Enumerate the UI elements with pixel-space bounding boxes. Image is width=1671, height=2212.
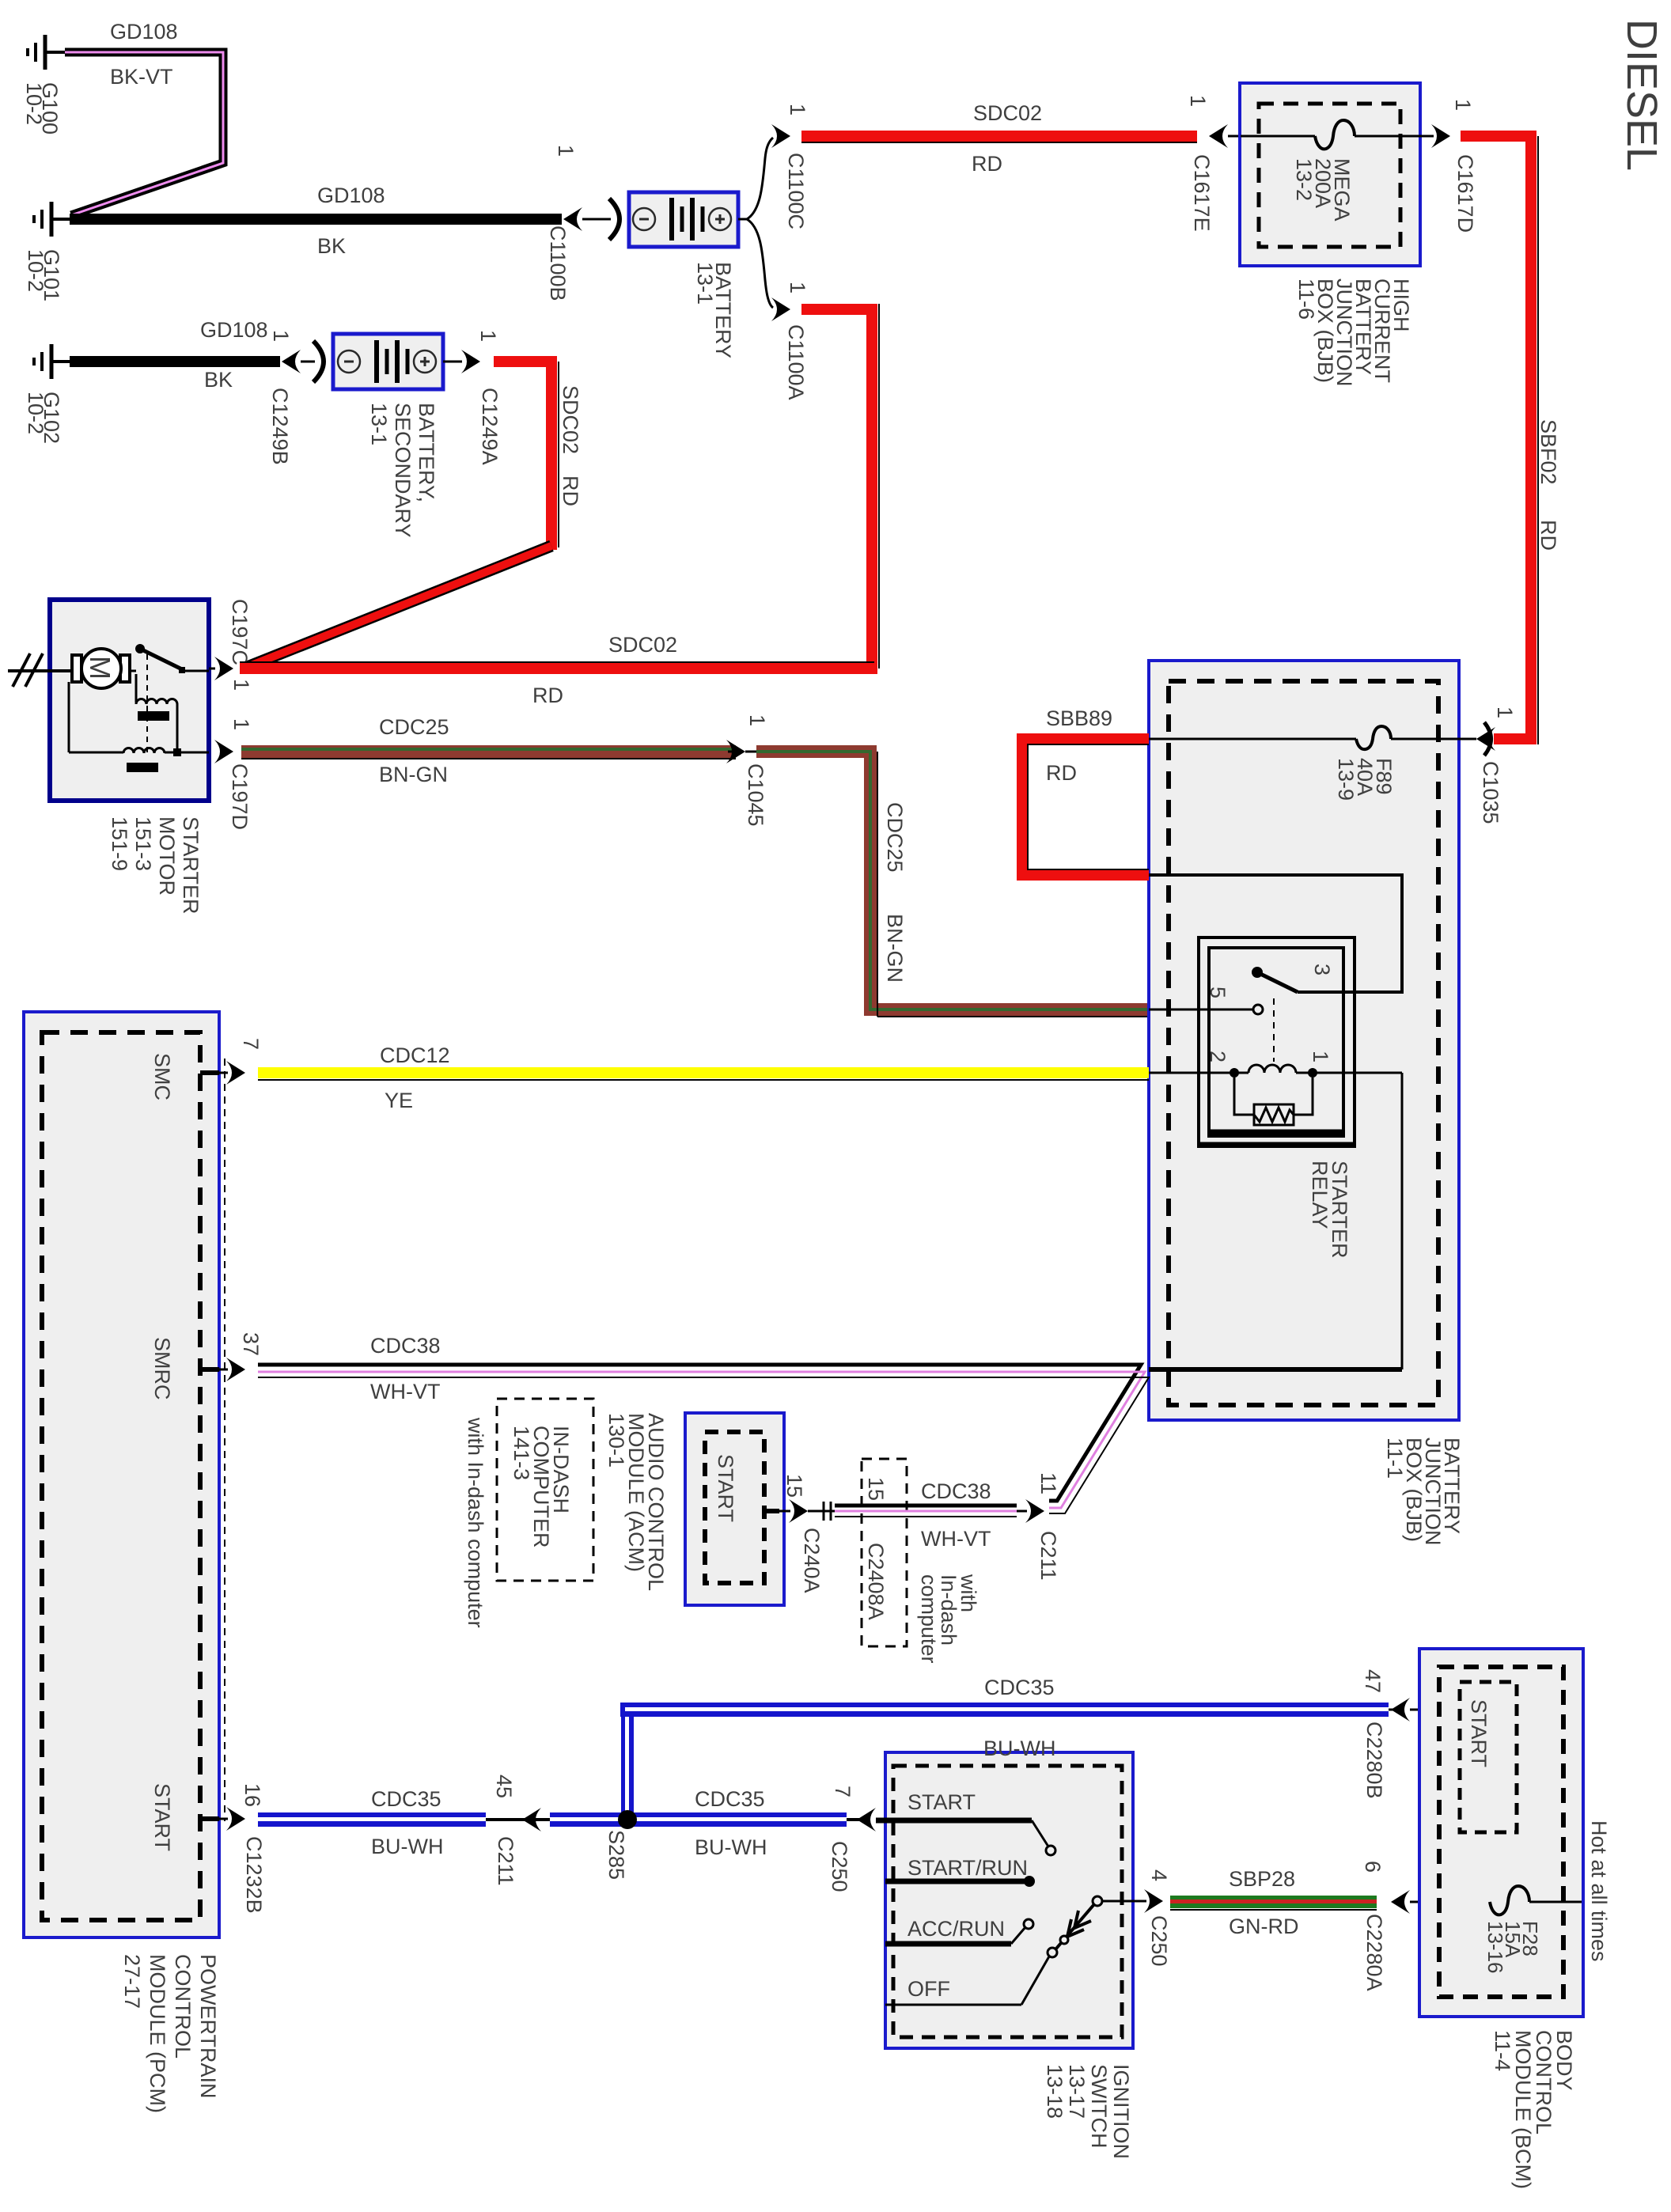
- wire CDC35 BU-WH (C211 to S285): [550, 1812, 862, 1827]
- svg-text:START: START: [907, 1790, 976, 1814]
- label SBB89 RD: [1046, 706, 1112, 785]
- label BODY CONTROL MODULE (BCM) 11-4: [1491, 2030, 1576, 2189]
- connector C2280B: [1391, 1698, 1460, 1721]
- svg-text:5: 5: [1206, 987, 1230, 998]
- svg-text:C211: C211: [494, 1836, 517, 1886]
- svg-text:C1249A: C1249A: [478, 388, 502, 465]
- svg-text:RD: RD: [1536, 520, 1560, 551]
- wire SBB89 RD loop: [1022, 739, 1149, 875]
- svg-text:C1100C: C1100C: [784, 153, 808, 229]
- svg-text:7: 7: [831, 1786, 854, 1797]
- svg-text:1: 1: [1451, 99, 1475, 111]
- svg-text:6: 6: [1361, 1861, 1385, 1873]
- fuse F28 15A: [1490, 1886, 1582, 1915]
- pin 1 C1045: [745, 714, 769, 726]
- label GD108 (BK lower): [200, 318, 268, 392]
- pin SMRC: [150, 1337, 245, 1400]
- label SDC02 RD (top): [972, 101, 1042, 176]
- svg-text:RELAY: RELAY: [1308, 1161, 1332, 1229]
- label BATTERY, SECONDARY 13-1: [367, 403, 438, 538]
- wire CDC12 YE: [258, 1067, 1149, 1080]
- starter motor box: [50, 600, 209, 801]
- relay pin label 2: [1206, 1051, 1230, 1062]
- svg-text:CONTROL: CONTROL: [171, 1954, 195, 2059]
- connector C2280A: [1391, 1890, 1490, 1914]
- ground G100: [28, 35, 65, 70]
- label CDC25 BN-GN: [379, 715, 449, 786]
- svg-text:SMRC: SMRC: [150, 1337, 174, 1400]
- label AUDIO CONTROL MODULE (ACM) 130-1: [604, 1413, 668, 1591]
- connector C1249A: [443, 350, 480, 373]
- wire relay pin3 feed: [1149, 875, 1402, 992]
- wire SDC02 RD stub C1100A: [801, 304, 879, 674]
- label C1035: [1479, 761, 1502, 824]
- svg-text:C197C: C197C: [228, 599, 252, 665]
- svg-text:1: 1: [229, 718, 253, 730]
- svg-text:SBB89: SBB89: [1046, 706, 1112, 730]
- motor M (starter): [72, 649, 130, 688]
- pin 15 C240A: [782, 1474, 806, 1498]
- battery B1 (BATTERY 13-1): [629, 192, 738, 247]
- svg-text:11-4: 11-4: [1491, 2030, 1514, 2071]
- svg-text:27-17: 27-17: [120, 1954, 144, 2009]
- label C250 (right): [1147, 1915, 1171, 1967]
- label S285: [604, 1830, 628, 1880]
- svg-text:S285: S285: [604, 1830, 628, 1880]
- audio control module ACM box: [685, 1413, 784, 1605]
- pin START (PCM): [150, 1783, 245, 1851]
- svg-text:141-3: 141-3: [510, 1426, 533, 1480]
- svg-text:151-9: 151-9: [108, 816, 131, 871]
- pin 1 C1100B: [554, 145, 578, 157]
- svg-text:YE: YE: [385, 1089, 413, 1112]
- svg-text:BN-GN: BN-GN: [379, 763, 448, 786]
- label Hot at all times: [1587, 1820, 1611, 1962]
- label BATTERY 13-1: [693, 262, 735, 358]
- label with In-dash computer (ACM): [464, 1417, 487, 1628]
- svg-text:2: 2: [1206, 1051, 1230, 1062]
- svg-text:10-2: 10-2: [24, 249, 47, 292]
- relay coil: [1149, 1065, 1402, 1078]
- svg-text:13-16: 13-16: [1483, 1921, 1507, 1974]
- label START (BCM): [1467, 1699, 1491, 1767]
- wire GD108 BK (G102 to battery 2): [70, 356, 280, 367]
- pin 1 C1249A: [476, 330, 500, 342]
- svg-text:BATTERY,: BATTERY,: [415, 403, 438, 502]
- pin 7 C250: [831, 1786, 854, 1797]
- engine ground (starter): [8, 653, 72, 687]
- svg-text:11: 11: [1036, 1472, 1060, 1494]
- connector C197C: [209, 657, 233, 680]
- svg-text:130-1: 130-1: [604, 1413, 628, 1468]
- label CDC25 (vertical): [883, 802, 907, 873]
- svg-text:RD: RD: [972, 152, 1002, 176]
- pin 15 C2408A: [864, 1477, 888, 1501]
- pin 1 C1100A: [786, 282, 809, 294]
- label SDC02 RD (battery2 vertical): [559, 385, 582, 506]
- svg-text:ACC/RUN: ACC/RUN: [907, 1917, 1005, 1941]
- svg-text:13-2: 13-2: [1292, 158, 1316, 201]
- svg-text:C197D: C197D: [228, 763, 252, 830]
- svg-text:C240A: C240A: [800, 1528, 824, 1593]
- battery junction box BJB: [1149, 661, 1459, 1420]
- relay pin label 1: [1309, 1051, 1332, 1062]
- ignition switch blade: [1056, 1896, 1146, 1949]
- svg-text:SBF02: SBF02: [1536, 419, 1560, 485]
- fuse F89 40A: [1149, 726, 1476, 749]
- ignition contact ACC/RUN: [885, 1917, 1033, 1944]
- svg-text:C2280B: C2280B: [1362, 1721, 1386, 1799]
- powertrain control module PCM box: [24, 1012, 225, 1937]
- svg-text:1: 1: [229, 679, 253, 691]
- pin SMC: [150, 1053, 245, 1100]
- label F28 15A 13-16: [1483, 1921, 1542, 1974]
- svg-text:3: 3: [1310, 964, 1334, 975]
- body control module BCM box: [1419, 1649, 1583, 2017]
- svg-text:1: 1: [476, 330, 500, 342]
- connector C211 (CDC35): [522, 1808, 541, 1831]
- svg-text:1: 1: [1493, 706, 1517, 718]
- pin 16 label: [241, 1783, 264, 1807]
- svg-text:BU-WH: BU-WH: [371, 1835, 443, 1858]
- svg-text:13-9: 13-9: [1334, 758, 1358, 801]
- label C250 (left): [828, 1841, 851, 1892]
- label C2280A: [1362, 1914, 1386, 1991]
- svg-text:CDC35: CDC35: [371, 1787, 441, 1811]
- svg-text:CDC38: CDC38: [921, 1479, 991, 1503]
- pin 1 C1035: [1493, 706, 1517, 718]
- svg-text:13-17: 13-17: [1065, 2064, 1089, 2119]
- svg-text:10-2: 10-2: [22, 82, 46, 125]
- starter solenoid pull-in coil: [136, 674, 181, 756]
- wire CDC38 WH-VT (ACM to C211): [835, 1506, 1027, 1517]
- pin 45 label: [492, 1775, 516, 1798]
- svg-text:RD: RD: [559, 475, 582, 506]
- wire GD108 BK (G101 to battery): [70, 214, 562, 225]
- svg-text:15: 15: [864, 1477, 888, 1501]
- svg-text:11-1: 11-1: [1383, 1437, 1407, 1479]
- svg-text:SBP28: SBP28: [1229, 1867, 1295, 1891]
- label C2408A: [864, 1543, 888, 1620]
- label SBF02 RD (vertical): [1536, 419, 1560, 551]
- svg-text:1: 1: [554, 145, 578, 157]
- connector C1045: [726, 740, 758, 763]
- svg-text:GD108: GD108: [317, 184, 385, 207]
- relay pin label 3: [1310, 964, 1334, 975]
- svg-text:BK-VT: BK-VT: [110, 65, 173, 89]
- svg-text:37: 37: [239, 1332, 263, 1356]
- svg-text:C1100B: C1100B: [546, 225, 570, 301]
- label HIGH CURRENT BATTERY JUNCTION BOX (BJB) 11-6: [1294, 278, 1413, 387]
- svg-text:1: 1: [269, 330, 293, 342]
- svg-text:SDC02: SDC02: [608, 633, 677, 657]
- label C1045: [744, 763, 767, 827]
- starter solenoid hold-in coil: [69, 682, 209, 772]
- label CDC38 WH-VT (ACM run): [921, 1479, 991, 1551]
- svg-text:C1035: C1035: [1479, 761, 1502, 824]
- ground G101: [34, 202, 71, 237]
- battery B2 (BATTERY SECONDARY 13-1): [333, 334, 443, 389]
- label GD108 (BK-VT): [110, 20, 178, 89]
- svg-text:START/RUN: START/RUN: [907, 1856, 1028, 1880]
- wire CDC25 BN-GN (starter to C1045): [241, 745, 736, 759]
- label IGNITION SWITCH 13-17 13-18: [1043, 2064, 1133, 2159]
- svg-text:BK: BK: [317, 234, 346, 258]
- svg-text:RD: RD: [1046, 761, 1077, 785]
- label C1232B: [242, 1836, 266, 1914]
- pin 47 label: [1361, 1669, 1385, 1693]
- svg-text:1: 1: [1309, 1051, 1332, 1062]
- svg-text:WH-VT: WH-VT: [370, 1380, 440, 1403]
- connector C1617E: [1209, 124, 1241, 148]
- label G100 10-2: [22, 82, 62, 134]
- svg-text:C1045: C1045: [744, 763, 767, 827]
- svg-text:13-1: 13-1: [693, 262, 717, 305]
- svg-text:SMC: SMC: [150, 1053, 174, 1100]
- svg-text:computer: computer: [917, 1574, 941, 1664]
- pin 1 C197C: [229, 679, 253, 691]
- label CDC35 BU-WH (mid): [695, 1787, 767, 1859]
- wire SDC02 RD (long horizontal): [240, 662, 874, 674]
- connector C211 (CDC38): [1025, 1499, 1044, 1523]
- svg-text:C1232B: C1232B: [242, 1836, 266, 1914]
- svg-text:47: 47: [1361, 1669, 1385, 1693]
- label STARTER RELAY: [1308, 1161, 1351, 1259]
- svg-text:CDC38: CDC38: [370, 1334, 441, 1358]
- svg-text:13-1: 13-1: [367, 403, 391, 445]
- relay switch blade pins 3/5: [1149, 967, 1298, 1062]
- connector C197D: [214, 740, 233, 763]
- svg-text:BU-WH: BU-WH: [983, 1737, 1055, 1760]
- relay pin label 5: [1206, 987, 1230, 998]
- svg-text:MOTOR: MOTOR: [155, 816, 179, 896]
- label C1249A: [478, 388, 502, 465]
- svg-text:C211: C211: [1036, 1531, 1060, 1581]
- wire GD108 BK-VT: [65, 52, 223, 215]
- svg-text:SWITCH: SWITCH: [1087, 2064, 1111, 2148]
- label SDC02 RD (long run): [532, 633, 677, 707]
- wire CDC35 BU-WH (PCM to C211): [258, 1812, 550, 1827]
- svg-text:CDC25: CDC25: [379, 715, 449, 739]
- svg-text:C1617E: C1617E: [1190, 154, 1214, 232]
- svg-text:1: 1: [786, 282, 809, 294]
- svg-text:45: 45: [492, 1775, 516, 1798]
- svg-text:RD: RD: [532, 684, 563, 707]
- starter relay box: [1199, 937, 1355, 1146]
- svg-text:7: 7: [239, 1038, 263, 1050]
- pin 4 C250: [1147, 1869, 1171, 1881]
- pin 1 C1100C: [786, 104, 809, 116]
- svg-text:C2280A: C2280A: [1362, 1914, 1386, 1991]
- label C197C: [228, 599, 252, 665]
- label IN-DASH COMPUTER 141-3: [497, 1399, 593, 1581]
- label POWERTRAIN CONTROL MODULE (PCM) 27-17: [120, 1954, 220, 2113]
- label with In-dash computer (C2408A): [917, 1574, 980, 1664]
- connector C250 (CDC35 into ignition): [857, 1808, 876, 1831]
- pin 37 label: [239, 1332, 263, 1356]
- label C1617D: [1453, 154, 1477, 233]
- label CDC35 BU-WH (left): [371, 1787, 443, 1858]
- label C2280B: [1362, 1721, 1386, 1799]
- svg-text:SDC02: SDC02: [559, 385, 582, 454]
- svg-text:1: 1: [1186, 95, 1210, 107]
- wire CDC38 WH-VT (PCM to C211 junction): [258, 1365, 1149, 1513]
- label C1249B: [268, 388, 292, 465]
- svg-text:START: START: [150, 1783, 174, 1851]
- svg-text:151-3: 151-3: [131, 816, 155, 871]
- label C240A: [800, 1528, 824, 1593]
- connector C240A: [764, 1499, 835, 1523]
- svg-text:DIESEL: DIESEL: [1618, 19, 1665, 171]
- label GD108 (BK mid): [317, 184, 385, 258]
- svg-text:10-2: 10-2: [24, 392, 47, 434]
- svg-text:GN-RD: GN-RD: [1229, 1915, 1299, 1938]
- label C1100A: [784, 324, 808, 400]
- svg-text:C250: C250: [828, 1841, 851, 1892]
- connector C1100C: [771, 124, 790, 148]
- label C211 (CDC35): [494, 1836, 517, 1886]
- label START (ACM): [714, 1454, 737, 1522]
- svg-text:Hot at all times: Hot at all times: [1587, 1820, 1611, 1962]
- svg-text:OFF: OFF: [907, 1977, 950, 2001]
- svg-text:MODULE (PCM): MODULE (PCM): [146, 1954, 169, 2113]
- fuse box MEGA 200A (High Current BJB): [1240, 83, 1434, 266]
- label G102 10-2: [24, 392, 63, 444]
- starter solenoid switch: [130, 644, 209, 753]
- label CDC35 BU-WH (top run): [983, 1676, 1055, 1760]
- svg-text:11-6: 11-6: [1294, 278, 1318, 320]
- label MEGA 200A 13-2: [1292, 158, 1354, 222]
- wire SBF02 RD (vertical): [1461, 131, 1538, 744]
- pin 1 C1249B: [269, 330, 293, 342]
- svg-text:13-18: 13-18: [1043, 2064, 1067, 2119]
- label C1617E: [1190, 154, 1214, 232]
- pin 1 C197D: [229, 718, 253, 730]
- pin 7 label: [239, 1038, 263, 1050]
- wire CDC25 BN-GN (C1045 to BJB): [756, 752, 1149, 1017]
- svg-text:BU-WH: BU-WH: [695, 1835, 767, 1859]
- wire SDC02 RD (battery2 down to starter): [245, 356, 559, 668]
- splice S285: [618, 1810, 637, 1829]
- label C211 (CDC38): [1036, 1531, 1060, 1581]
- connector C1100B: [563, 199, 620, 240]
- label CDC38 WH-VT (upper): [370, 1334, 441, 1403]
- svg-text:with In-dash computer: with In-dash computer: [464, 1417, 487, 1628]
- connector C1617D: [1431, 124, 1450, 148]
- title DIESEL: [1618, 19, 1665, 171]
- svg-text:C250: C250: [1147, 1915, 1171, 1967]
- svg-text:GD108: GD108: [200, 318, 268, 342]
- svg-text:START: START: [1467, 1699, 1491, 1767]
- svg-text:M: M: [84, 656, 116, 680]
- svg-text:1: 1: [745, 714, 769, 726]
- svg-text:C2408A: C2408A: [864, 1543, 888, 1620]
- wire RD stub to C1035: [1494, 733, 1531, 744]
- svg-text:C1100A: C1100A: [784, 324, 808, 400]
- svg-text:SECONDARY: SECONDARY: [391, 403, 415, 538]
- svg-text:IGNITION: IGNITION: [1109, 2064, 1133, 2159]
- wire SBP28 GN-RD: [1170, 1896, 1377, 1910]
- svg-text:CDC35: CDC35: [695, 1787, 765, 1811]
- label SBP28 GN-RD: [1229, 1867, 1299, 1938]
- pin 6 label: [1361, 1861, 1385, 1873]
- label C1100B: [546, 225, 570, 301]
- svg-text:CDC25: CDC25: [883, 802, 907, 873]
- label STARTER MOTOR 151-3 151-9: [108, 816, 203, 915]
- wire CDC35 BU-WH (riser and top run): [620, 1703, 1394, 1820]
- wire SDC02 RD (battery to MEGA): [801, 131, 1197, 142]
- label BN-GN (vertical): [883, 914, 907, 983]
- svg-text:16: 16: [241, 1783, 264, 1807]
- pin 1 C1617D: [1451, 99, 1475, 111]
- label C1100C: [784, 153, 808, 229]
- svg-text:POWERTRAIN: POWERTRAIN: [196, 1954, 220, 2099]
- label C197D: [228, 763, 252, 830]
- svg-text:CDC12: CDC12: [380, 1044, 450, 1067]
- connector C1249B: [282, 341, 324, 382]
- svg-text:BK: BK: [204, 368, 233, 392]
- relay resistor: [1234, 1078, 1313, 1125]
- ignition contact OFF: [885, 1948, 1057, 2005]
- svg-text:4: 4: [1147, 1869, 1171, 1881]
- in-line connector C2408A box: [862, 1459, 907, 1646]
- svg-text:BN-GN: BN-GN: [883, 914, 907, 983]
- wire relay pin1 to CDC38 exit: [1149, 1073, 1402, 1369]
- svg-text:GD108: GD108: [110, 20, 178, 44]
- svg-text:SDC02: SDC02: [973, 101, 1042, 125]
- wire battery B1 positive branches: [738, 138, 773, 308]
- svg-text:CDC35: CDC35: [984, 1676, 1055, 1699]
- svg-text:C1617D: C1617D: [1453, 154, 1477, 233]
- svg-text:1: 1: [786, 104, 809, 116]
- ignition contact START/RUN: [885, 1856, 1035, 1887]
- ignition switch box: [885, 1752, 1133, 2048]
- label F89 40A 13-9: [1334, 758, 1396, 801]
- svg-text:WH-VT: WH-VT: [921, 1527, 991, 1551]
- connector C1035: [1476, 722, 1495, 756]
- connector C1100A: [771, 297, 790, 321]
- label CDC12 YE: [380, 1044, 450, 1112]
- connector C250 (ignition to SBP28): [1144, 1889, 1163, 1913]
- label BATTERY JUNCTION BOX (BJB) 11-1: [1383, 1437, 1464, 1546]
- svg-text:C1249B: C1249B: [268, 388, 292, 465]
- ignition contact START: [876, 1790, 1055, 1855]
- svg-text:STARTER: STARTER: [179, 816, 203, 915]
- pin 1 C1617E: [1186, 95, 1210, 107]
- pin 11 C211: [1036, 1472, 1060, 1494]
- label G101 10-2: [24, 249, 63, 301]
- svg-text:START: START: [714, 1454, 737, 1522]
- svg-text:15: 15: [782, 1474, 806, 1498]
- ground G102: [34, 344, 71, 379]
